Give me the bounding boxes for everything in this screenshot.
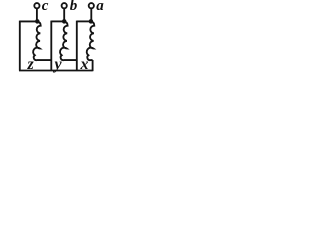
wire left vertical [19, 21, 21, 71]
terminal circle a [89, 3, 94, 8]
wire right stub [92, 60, 94, 71]
svg-text:x: x [80, 56, 89, 73]
wire bottom bus [19, 70, 93, 72]
svg-text:z: z [27, 56, 35, 73]
wire stem c [36, 9, 38, 21]
winding coil 2 [60, 22, 77, 60]
wire top 1 [20, 20, 38, 22]
wire top 3 [77, 20, 91, 22]
junction dot node a [89, 19, 94, 24]
wire top 2 [51, 20, 64, 22]
svg-text:y: y [53, 56, 63, 73]
wire vertical 3 [76, 21, 78, 71]
svg-text:c: c [42, 0, 49, 14]
wire vertical 2 [50, 21, 52, 71]
wire stem a [90, 9, 92, 21]
svg-text:b: b [70, 0, 78, 14]
svg-text:a: a [96, 0, 104, 14]
terminal circle b [62, 3, 67, 8]
winding coil 3 [87, 22, 95, 60]
wire stem b [63, 9, 65, 21]
junction dot node b [62, 19, 67, 24]
winding coil 1 [33, 22, 51, 60]
junction dot node c [35, 19, 40, 24]
terminal circle c [34, 3, 39, 8]
